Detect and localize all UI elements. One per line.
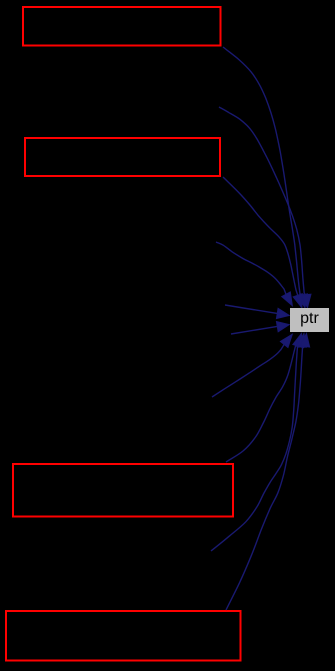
edge from hidden caller 2 to ptr (219, 107, 311, 308)
edge from hidden caller 5 to ptr (225, 305, 290, 319)
svg-text:ptr: ptr (300, 310, 319, 327)
edge from caller box 3 to ptr (226, 333, 302, 462)
edge from caller box 1 to ptr (223, 47, 308, 308)
caller node box 1 (red, truncated) (23, 7, 221, 46)
edge from hidden caller 4 to ptr (216, 242, 293, 306)
edge from hidden caller 6 to ptr (231, 321, 290, 334)
edge from hidden caller 9 to ptr (211, 333, 306, 551)
edge from caller box 4 to ptr (226, 333, 310, 610)
caller node box 4 (red, truncated) (6, 611, 241, 661)
caller node box 2 (red, truncated) (25, 138, 220, 176)
edge from caller box 2 to ptr (223, 177, 302, 308)
edge from hidden caller 7 to ptr (212, 334, 293, 397)
caller node box 3 (red, truncated) (13, 464, 233, 517)
node ptr (grey filled) (290, 308, 329, 332)
